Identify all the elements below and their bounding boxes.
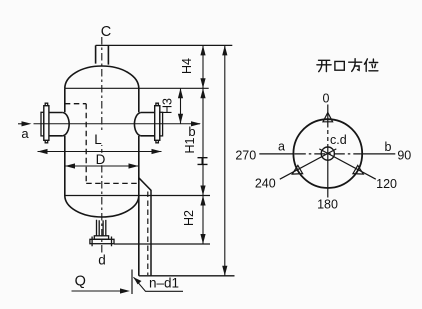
char 位 bbox=[364, 59, 378, 72]
char 方 bbox=[349, 59, 362, 72]
label L backing bbox=[93, 132, 105, 146]
nozzle a/b centerline bbox=[34, 123, 201, 125]
bottom tangent extension line bbox=[65, 195, 211, 197]
orientation circle bbox=[293, 119, 362, 188]
horizontal axis a-b (270-90) bbox=[259, 153, 295, 155]
dimension arrow Q bbox=[72, 288, 131, 293]
nozzle a bolt stubs bbox=[45, 103, 48, 143]
vertical axis upper (0) bbox=[327, 105, 329, 128]
Q extension tick bbox=[131, 270, 133, 295]
support leg hidden edge bbox=[147, 192, 149, 276]
dimension H1 bbox=[200, 88, 205, 195]
dimension D bbox=[65, 163, 139, 168]
support leg bbox=[139, 178, 151, 276]
nozzle b bolt stubs bbox=[156, 103, 159, 143]
flow arrow a bbox=[18, 121, 32, 126]
svg-text:180: 180 bbox=[317, 198, 338, 212]
nozzle b neck bbox=[141, 113, 155, 136]
support lug triangle at 0 bbox=[323, 113, 333, 122]
svg-text:D: D bbox=[96, 152, 106, 167]
dimension H3 bbox=[178, 88, 183, 124]
vertical axis lower (180) bbox=[327, 148, 329, 198]
svg-text:n–d1: n–d1 bbox=[149, 276, 179, 291]
svg-text:H: H bbox=[196, 156, 212, 166]
svg-text:d: d bbox=[98, 253, 106, 268]
center hub circle c.d bbox=[321, 147, 334, 160]
radius line to 120 bbox=[319, 149, 376, 179]
nozzle b raised face bbox=[160, 112, 163, 136]
svg-text:a: a bbox=[21, 126, 29, 141]
top tangent extension line bbox=[65, 87, 209, 89]
vessel centerline bbox=[101, 37, 103, 254]
flange base extension line bbox=[114, 243, 210, 245]
orientation diagram title 开口方位 (drawn strokes) bbox=[317, 59, 378, 72]
support lug triangle at 240 bbox=[290, 165, 303, 178]
svg-text:b: b bbox=[385, 140, 392, 154]
svg-text:H2: H2 bbox=[182, 210, 196, 226]
svg-text:H3: H3 bbox=[161, 98, 175, 114]
svg-text:H1: H1 bbox=[183, 137, 197, 153]
nozzle d pipe bbox=[97, 220, 106, 236]
internal baffle hidden outline bbox=[65, 104, 139, 184]
char 开 bbox=[317, 60, 331, 71]
nozzle C top / H4 extension line bbox=[96, 44, 233, 46]
top head bbox=[65, 66, 139, 88]
dimension L bbox=[38, 149, 162, 154]
nozzle a neck bbox=[49, 113, 63, 136]
nozzle b flange bbox=[155, 106, 160, 141]
leg bottom / base extension line bbox=[139, 275, 235, 277]
dimension H4 bbox=[200, 45, 205, 88]
svg-text:b: b bbox=[188, 124, 195, 139]
nozzle a shell-intersection arc bbox=[63, 113, 69, 136]
radius line to 240 bbox=[280, 149, 337, 179]
support lug triangle at 120 bbox=[353, 165, 366, 178]
dimension H bbox=[222, 45, 227, 275]
svg-text:120: 120 bbox=[376, 177, 397, 191]
n-d1 leader arrow bbox=[134, 277, 184, 291]
svg-text:0: 0 bbox=[323, 91, 330, 105]
nozzle C pipe bbox=[96, 45, 109, 64]
bottom head bbox=[65, 196, 139, 218]
nozzle a raised face bbox=[41, 112, 44, 136]
vessel shell right wall (continues as leg left edge) bbox=[138, 88, 140, 275]
nozzle a flange bbox=[44, 106, 49, 141]
svg-text:a: a bbox=[278, 140, 285, 154]
svg-text:L: L bbox=[94, 132, 102, 147]
nozzle b shell-intersection arc bbox=[134, 113, 140, 136]
svg-text:Q: Q bbox=[75, 274, 86, 290]
svg-text:c.d: c.d bbox=[330, 133, 347, 147]
nozzle d hub bbox=[94, 236, 108, 240]
svg-text:90: 90 bbox=[397, 149, 411, 163]
svg-text:H4: H4 bbox=[180, 58, 194, 74]
svg-text:270: 270 bbox=[235, 148, 256, 162]
nozzle d flange bbox=[90, 239, 114, 243]
dimension H2 bbox=[200, 196, 205, 245]
char 口 bbox=[335, 61, 344, 70]
label D backing bbox=[94, 153, 108, 165]
vessel shell left wall bbox=[64, 88, 66, 195]
svg-text:C: C bbox=[101, 24, 111, 40]
flow arrow b bbox=[191, 121, 201, 126]
nozzle d bolt ticks bbox=[92, 237, 111, 247]
svg-text:240: 240 bbox=[255, 177, 276, 191]
